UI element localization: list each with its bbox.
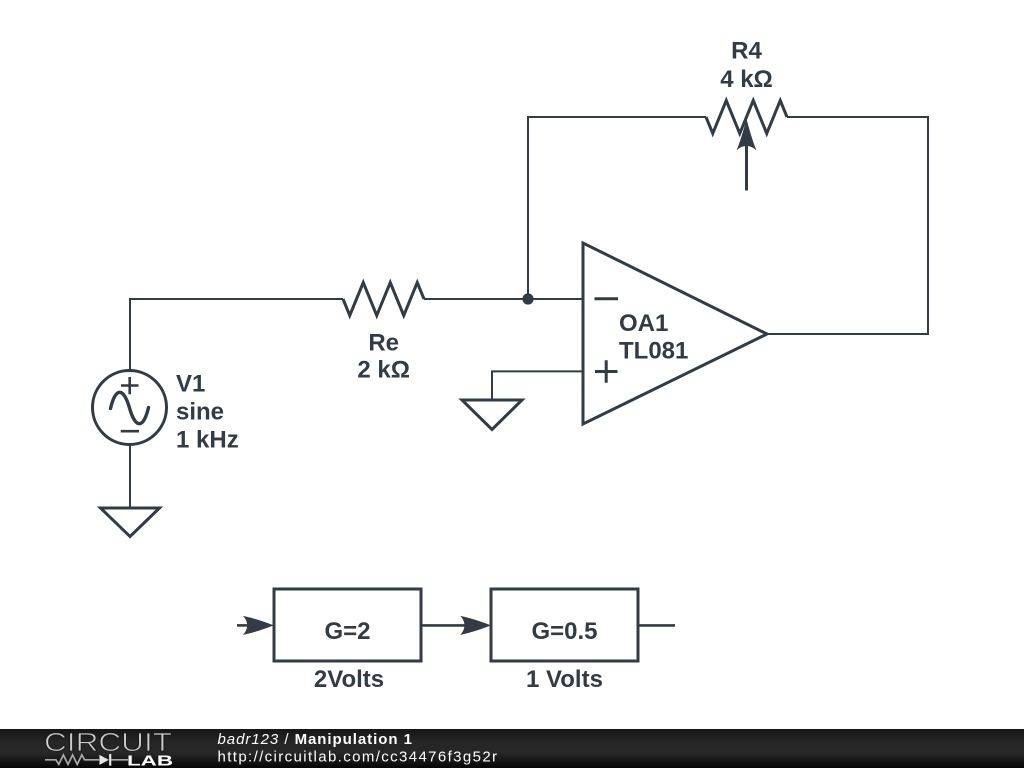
ground at non-inverting input — [462, 400, 522, 430]
footer logo resistor-diode doodle — [45, 754, 128, 766]
svg-text:TL081: TL081 — [619, 338, 688, 365]
block G=2 input arrow wire — [237, 624, 250, 627]
voltage source V1 — [93, 371, 167, 445]
svg-text:2 kΩ: 2 kΩ — [357, 357, 410, 384]
svg-text:1 Volts: 1 Volts — [526, 666, 603, 693]
svg-text:sine: sine — [176, 399, 224, 426]
wire from V1 top to input wire — [130, 299, 132, 371]
behavioral block G=2 — [274, 589, 421, 661]
svg-text:R4: R4 — [731, 38, 762, 65]
svg-text:1 kHz: 1 kHz — [176, 427, 239, 454]
behavioral block G=0.5 — [491, 589, 638, 661]
block G=2 input arrowhead — [243, 616, 274, 635]
wire from ground to op-amp non-inverting input — [492, 371, 583, 400]
resistor Re — [343, 283, 424, 316]
ground under V1 — [101, 508, 160, 537]
svg-text:LAB: LAB — [127, 753, 173, 768]
wire from V1 bottom to ground — [129, 444, 131, 508]
svg-text:V1: V1 — [176, 371, 205, 398]
svg-text:http://circuitlab.com/cc34476f: http://circuitlab.com/cc34476f3g52r — [218, 749, 499, 766]
block G=0.5 output wire — [638, 624, 675, 627]
wire input from V1 to Re — [130, 298, 343, 300]
node junction at inverting input — [522, 293, 533, 304]
wire from Re to op-amp inverting input — [424, 298, 583, 300]
svg-text:badr123 / Manipulation 1: badr123 / Manipulation 1 — [218, 731, 413, 748]
svg-text:4 kΩ: 4 kΩ — [720, 66, 773, 93]
R4 wiper arrow — [737, 119, 757, 191]
svg-text:2Volts: 2Volts — [314, 666, 384, 693]
block G=0.5 input arrowhead — [460, 616, 491, 635]
svg-text:G=0.5: G=0.5 — [531, 618, 597, 645]
svg-text:Re: Re — [368, 330, 399, 357]
svg-text:G=2: G=2 — [324, 618, 370, 645]
wire top feedback left vertical — [528, 117, 706, 299]
op-amp inverting pin minus — [595, 297, 619, 300]
svg-text:OA1: OA1 — [619, 310, 668, 337]
footer bar — [0, 729, 1024, 768]
resistor R4 (potentiometer body) — [706, 101, 787, 134]
wire top feedback right and output — [767, 117, 928, 334]
op-amp OA1 body — [583, 243, 767, 424]
op-amp non-inverting pin plus — [595, 360, 618, 382]
wire between blocks — [421, 624, 467, 627]
